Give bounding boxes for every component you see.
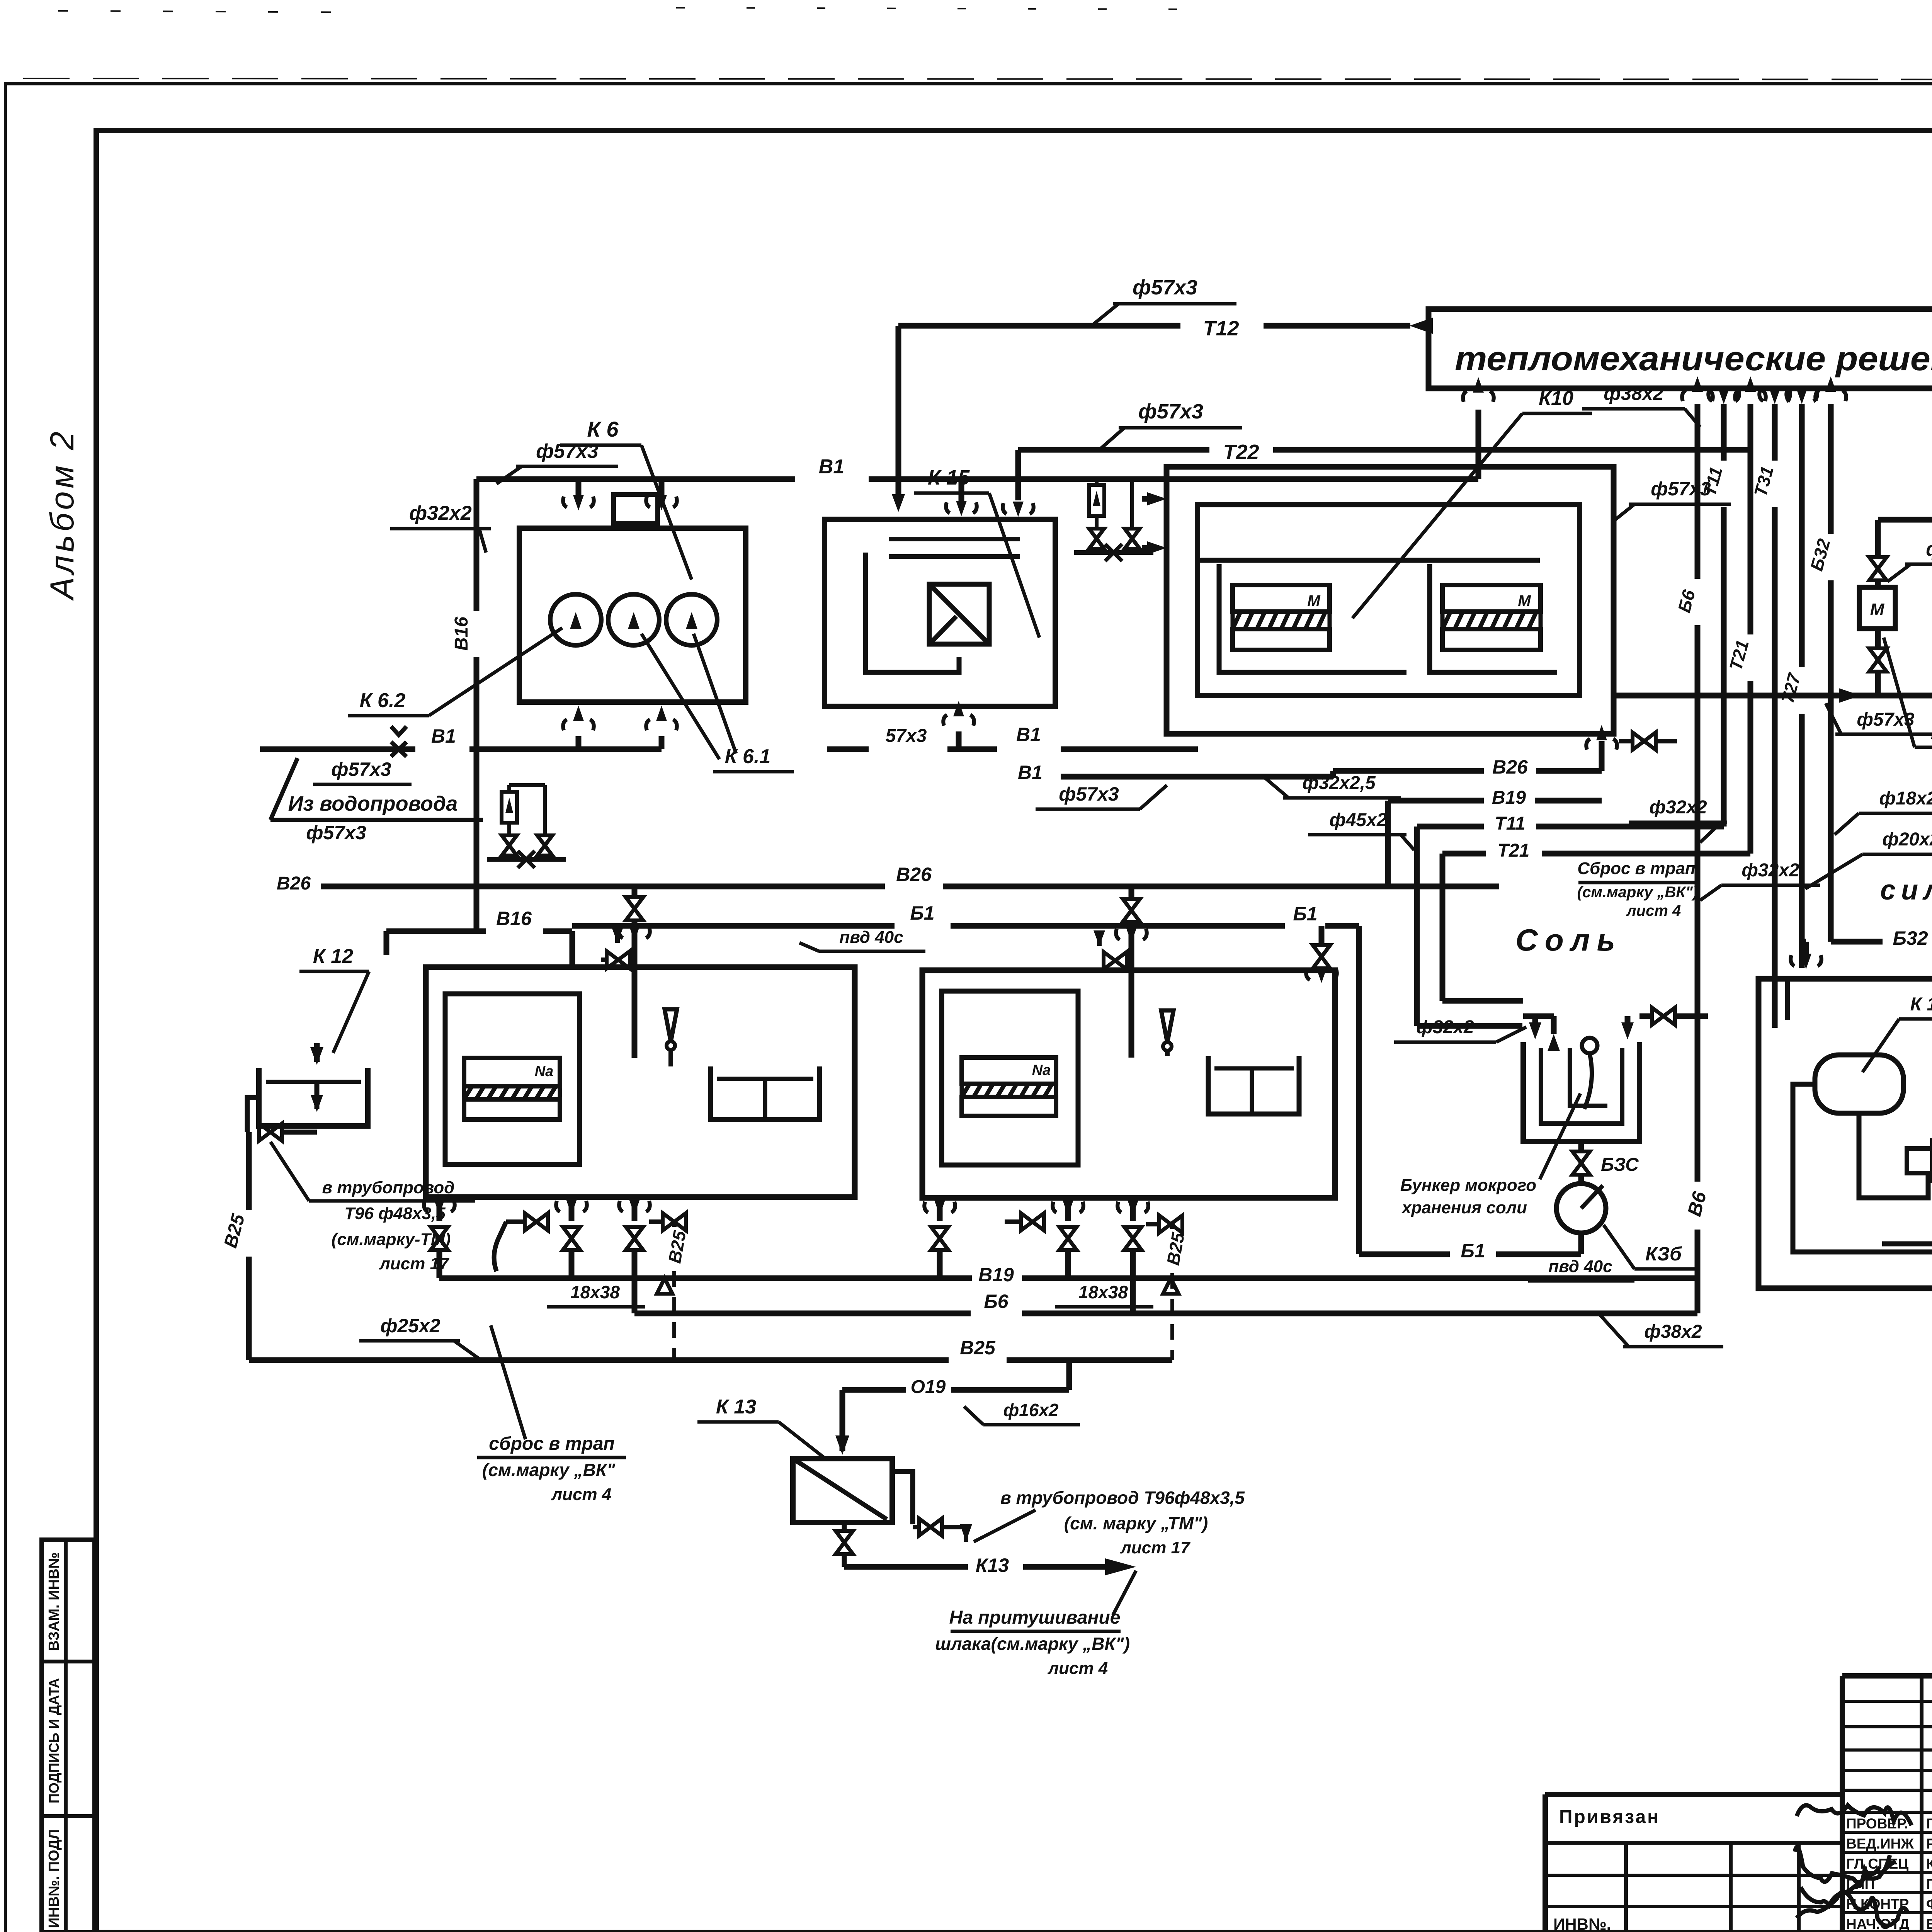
svg-text:ф57х3: ф57х3 — [306, 822, 366, 844]
svg-text:ф32х2: ф32х2 — [1416, 1017, 1474, 1037]
svg-text:в трубопровод: в трубопровод — [322, 1178, 455, 1197]
svg-text:пвд 40с: пвд 40с — [1548, 1257, 1612, 1276]
svg-text:Б1: Б1 — [1461, 1240, 1485, 1262]
svg-text:Из водопровода: Из водопровода — [288, 792, 458, 815]
svg-text:лист 4: лист 4 — [1048, 1659, 1108, 1678]
svg-text:ВЗАМ. ИНВ№: ВЗАМ. ИНВ№ — [46, 1552, 62, 1651]
svg-text:Привязан: Привязан — [1559, 1807, 1660, 1827]
svg-text:М: М — [1307, 592, 1321, 609]
svg-text:Т12: Т12 — [1203, 317, 1239, 340]
svg-text:ПОВЕТЯНОЙ: ПОВЕТЯНОЙ — [1926, 1815, 1932, 1832]
svg-text:Б32: Б32 — [1893, 927, 1928, 949]
svg-text:Бункер мокрого: Бункер мокрого — [1400, 1176, 1536, 1195]
svg-text:Т96 ф48х3,5: Т96 ф48х3,5 — [344, 1204, 446, 1223]
svg-text:ф32х2: ф32х2 — [1926, 538, 1932, 560]
svg-text:тепломеханические решения: тепломеханические решения — [1455, 339, 1932, 378]
svg-text:В26: В26 — [277, 873, 311, 894]
svg-text:ИНВ№. ПОДЛ: ИНВ№. ПОДЛ — [46, 1829, 62, 1928]
svg-text:БЗС: БЗС — [1601, 1155, 1639, 1175]
svg-text:лист 4: лист 4 — [551, 1485, 612, 1504]
svg-text:(см. марку „ТМ"): (см. марку „ТМ") — [1064, 1513, 1208, 1533]
svg-text:В16: В16 — [496, 908, 532, 929]
svg-text:КЗб: КЗб — [1645, 1243, 1682, 1265]
svg-text:В26: В26 — [896, 864, 932, 885]
svg-text:ВЭСКЕР: ВЭСКЕР — [1926, 1916, 1932, 1932]
svg-text:К 6.2: К 6.2 — [360, 689, 406, 712]
svg-text:ВЕД.ИНЖ: ВЕД.ИНЖ — [1846, 1836, 1914, 1852]
svg-text:пвд 40с: пвд 40с — [839, 928, 903, 947]
svg-text:силикат натрия: силикат натрия — [1880, 875, 1932, 906]
svg-text:ф45х2: ф45х2 — [1329, 810, 1387, 830]
svg-text:сброс в трап: сброс в трап — [489, 1434, 614, 1454]
svg-text:К 12: К 12 — [313, 945, 353, 968]
svg-text:Б1: Б1 — [910, 902, 934, 924]
svg-text:Соль: Соль — [1515, 923, 1622, 957]
svg-text:Т21: Т21 — [1498, 840, 1530, 861]
svg-text:ф38х2: ф38х2 — [1644, 1321, 1702, 1342]
svg-text:ИНВ№.: ИНВ№. — [1553, 1915, 1611, 1932]
svg-text:ф25х2: ф25х2 — [380, 1315, 440, 1337]
svg-text:(см.марку „ВК": (см.марку „ВК" — [482, 1460, 616, 1480]
svg-text:(см.марку „ВК"): (см.марку „ВК") — [1577, 884, 1698, 901]
svg-text:хранения соли: хранения соли — [1401, 1198, 1527, 1217]
svg-text:шлака(см.марку „ВК"): шлака(см.марку „ВК") — [935, 1634, 1130, 1654]
svg-text:ПРОВЕР.: ПРОВЕР. — [1846, 1816, 1908, 1832]
svg-text:На притушивание: На притушивание — [949, 1607, 1121, 1628]
svg-text:Nа: Nа — [1032, 1062, 1051, 1078]
svg-text:К 6: К 6 — [587, 417, 619, 441]
svg-text:К 15: К 15 — [928, 466, 970, 489]
svg-text:ф18х2: ф18х2 — [1879, 788, 1932, 809]
svg-text:В1: В1 — [431, 725, 456, 747]
svg-text:57х3: 57х3 — [886, 726, 927, 746]
svg-text:18х38: 18х38 — [570, 1282, 620, 1302]
svg-text:ф32х2: ф32х2 — [409, 502, 472, 524]
svg-text:ф32х2,5: ф32х2,5 — [1302, 773, 1376, 793]
svg-text:В1: В1 — [1018, 762, 1043, 783]
svg-text:ПОДПИСЬ И ДАТА: ПОДПИСЬ И ДАТА — [46, 1678, 62, 1803]
svg-text:В1: В1 — [1016, 724, 1041, 745]
svg-text:лист 17: лист 17 — [1120, 1538, 1191, 1557]
svg-text:Альбом 2: Альбом 2 — [44, 429, 81, 601]
svg-text:ф20х2.8: ф20х2.8 — [1882, 829, 1932, 850]
svg-text:К10: К10 — [1539, 387, 1573, 410]
svg-text:В25: В25 — [960, 1337, 996, 1359]
svg-text:ф38х2: ф38х2 — [1604, 383, 1664, 404]
svg-text:в трубопровод Т96ф48х3,5: в трубопровод Т96ф48х3,5 — [1000, 1488, 1245, 1508]
svg-text:М: М — [1518, 592, 1531, 609]
svg-text:ф32х2: ф32х2 — [1649, 797, 1707, 818]
svg-text:ф57х3: ф57х3 — [1059, 783, 1119, 805]
svg-text:ф57х3: ф57х3 — [1138, 400, 1203, 423]
svg-text:К 6.1: К 6.1 — [725, 745, 771, 768]
svg-text:В1: В1 — [819, 456, 844, 478]
svg-text:РОЖКОВА: РОЖКОВА — [1926, 1836, 1932, 1852]
svg-text:ф32х2: ф32х2 — [1742, 860, 1799, 881]
svg-text:ПОРУБЛЕВ: ПОРУБЛЕВ — [1926, 1876, 1932, 1892]
svg-text:ф57х3: ф57х3 — [1133, 276, 1197, 299]
svg-text:ф57х3: ф57х3 — [331, 759, 391, 780]
svg-text:ФОКИН: ФОКИН — [1926, 1896, 1932, 1912]
svg-text:ф16х2: ф16х2 — [1003, 1400, 1058, 1420]
svg-text:Т22: Т22 — [1223, 440, 1259, 464]
svg-text:Б6: Б6 — [984, 1291, 1009, 1312]
svg-text:18х38: 18х38 — [1078, 1282, 1128, 1302]
svg-text:К13: К13 — [976, 1554, 1009, 1576]
svg-text:В19: В19 — [1492, 787, 1526, 808]
svg-text:К 11.2: К 11.2 — [1910, 994, 1932, 1015]
svg-text:Т11: Т11 — [1495, 813, 1525, 834]
svg-text:Сброс в трап: Сброс в трап — [1577, 859, 1696, 878]
svg-text:лист 4: лист 4 — [1626, 902, 1681, 919]
svg-text:КАЧУРА: КАЧУРА — [1926, 1856, 1932, 1872]
svg-text:К 13: К 13 — [716, 1396, 756, 1418]
svg-text:Nа: Nа — [535, 1063, 554, 1080]
svg-text:О19: О19 — [911, 1377, 946, 1397]
svg-text:М: М — [1870, 600, 1885, 619]
svg-text:В19: В19 — [978, 1264, 1014, 1286]
svg-text:Б1: Б1 — [1293, 903, 1317, 925]
svg-text:В16: В16 — [451, 617, 472, 651]
svg-text:В26: В26 — [1492, 756, 1528, 778]
